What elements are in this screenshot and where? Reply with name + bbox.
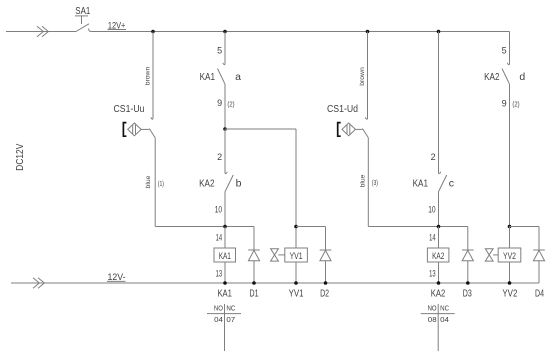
svg-text:14: 14 [216, 233, 223, 243]
svg-text:a: a [235, 71, 241, 83]
svg-text:D4: D4 [535, 289, 544, 300]
svg-text:c: c [449, 177, 454, 189]
svg-text:(2): (2) [512, 101, 519, 108]
svg-text:KA2: KA2 [199, 177, 215, 189]
svg-text:blue: blue [145, 175, 152, 188]
svg-text:D2: D2 [320, 289, 329, 300]
svg-text:2: 2 [431, 152, 436, 162]
svg-text:KA2: KA2 [484, 71, 500, 83]
svg-text:CS1-Ud: CS1-Ud [327, 104, 358, 115]
svg-text:5: 5 [502, 46, 507, 56]
svg-text:10: 10 [428, 204, 435, 214]
svg-text:04: 04 [214, 315, 223, 324]
svg-text:NC: NC [226, 304, 235, 313]
svg-text:NC: NC [440, 304, 449, 313]
svg-text:KA1: KA1 [413, 177, 429, 189]
svg-text:NO: NO [214, 304, 223, 313]
svg-text:CS1-Uu: CS1-Uu [114, 104, 145, 115]
svg-text:10: 10 [215, 204, 222, 214]
svg-text:5: 5 [217, 46, 222, 56]
svg-text:D3: D3 [463, 289, 472, 300]
svg-text:9: 9 [217, 98, 222, 108]
svg-text:KA1: KA1 [217, 289, 232, 300]
svg-text:13: 13 [429, 269, 436, 279]
svg-text:13: 13 [216, 269, 223, 279]
svg-text:YV1: YV1 [290, 251, 303, 261]
svg-text:9: 9 [502, 99, 507, 109]
svg-text:07: 07 [226, 315, 235, 324]
svg-text:08: 08 [428, 315, 437, 324]
svg-text:KA1: KA1 [200, 71, 216, 83]
svg-text:(2): (2) [227, 101, 234, 108]
svg-text:D1: D1 [250, 289, 259, 300]
svg-text:YV2: YV2 [503, 251, 516, 261]
svg-text:brown: brown [145, 67, 152, 86]
svg-text:14: 14 [429, 233, 436, 243]
svg-text:DC12V: DC12V [14, 144, 26, 171]
svg-text:(3): (3) [372, 180, 378, 187]
svg-text:04: 04 [440, 315, 449, 324]
svg-text:KA2: KA2 [432, 251, 444, 261]
svg-text:b: b [236, 177, 242, 189]
svg-text:d: d [519, 71, 525, 83]
svg-text:brown: brown [359, 67, 366, 86]
svg-text:(1): (1) [158, 181, 164, 188]
svg-text:KA1: KA1 [219, 251, 231, 261]
svg-text:KA2: KA2 [431, 289, 446, 300]
svg-text:SA1: SA1 [75, 6, 90, 17]
svg-text:2: 2 [217, 152, 222, 162]
svg-text:NO: NO [428, 304, 437, 313]
svg-text:YV1: YV1 [289, 289, 304, 300]
svg-text:blue: blue [359, 174, 366, 187]
svg-text:YV2: YV2 [502, 289, 517, 300]
